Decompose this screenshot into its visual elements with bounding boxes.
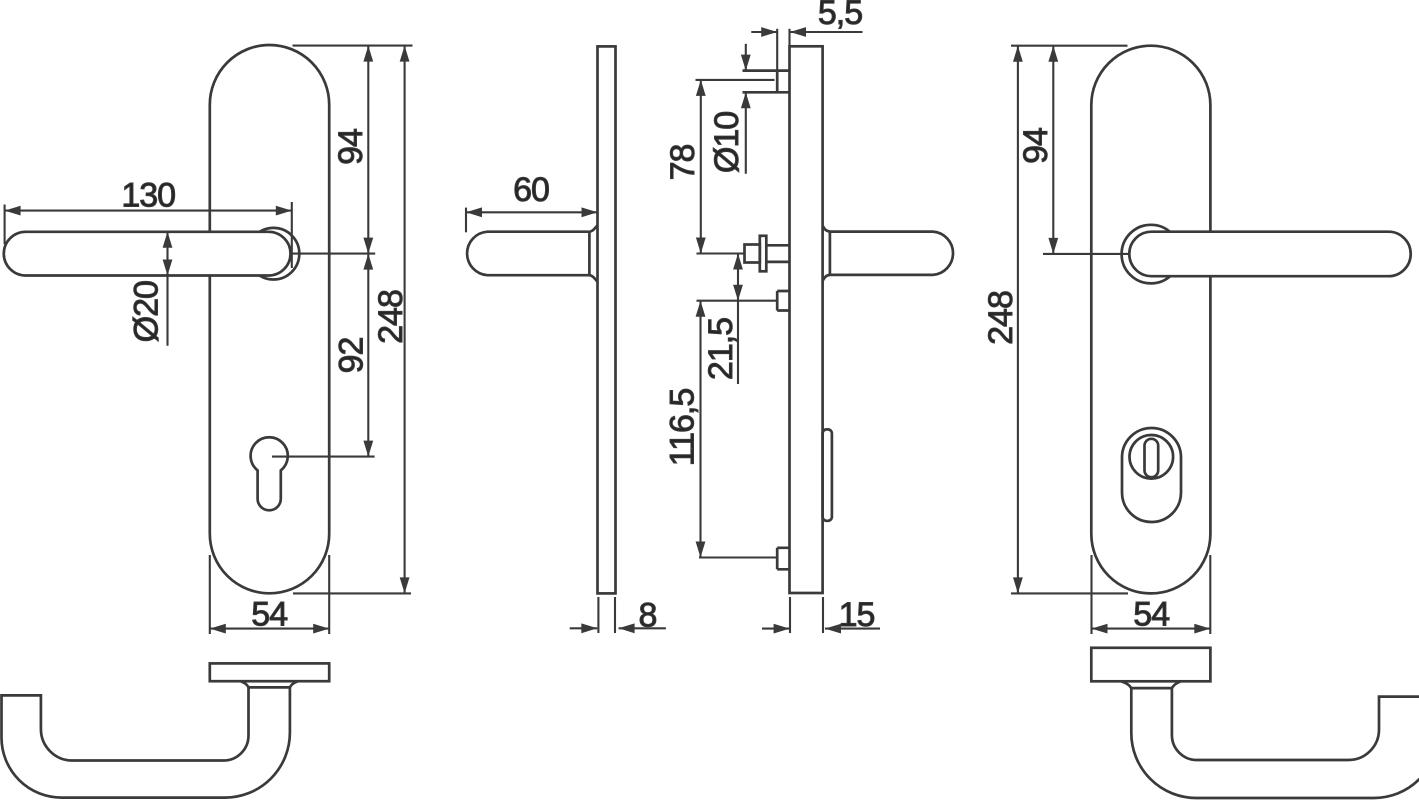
dim 54 ext right (view1) [328,555,330,634]
view4 cylinder keyway slot [1145,439,1159,477]
svg-text:Ø10: Ø10 [708,112,746,173]
dim 60 arrow left [466,207,482,217]
view2 lever flare junction [588,233,591,275]
view1 profile-cylinder keyhole [251,437,288,510]
dim 5,5 arrow left [761,27,777,37]
svg-text:5,5: 5,5 [818,0,862,32]
dim 5,5 line right [790,31,863,33]
dim 15 ext right [822,597,824,633]
dim 15 arrow left [774,624,790,634]
dim 94 line (view4) [1052,46,1054,254]
svg-text:Ø20: Ø20 [128,281,166,342]
dim 8 line left [570,627,598,629]
view3 bottom reference line [699,556,777,558]
dim 5,5 arrow right [790,27,806,37]
svg-text:54: 54 [1133,596,1169,634]
view3 spindle disc [760,236,767,271]
svg-text:116,5: 116,5 [663,389,701,467]
dim Ø20 line [166,232,168,346]
dim 78 line [700,80,702,254]
svg-text:21,5: 21,5 [702,318,740,380]
dim 5,5 line left [751,31,777,33]
svg-text:248: 248 [982,291,1020,345]
dim 54 arrow left (view4) [1092,624,1108,634]
right top-view neck junction line [1131,687,1172,690]
dim Ø10 line upper [745,44,747,71]
dim Ø20 arrow up [163,232,173,248]
svg-text:78: 78 [664,145,702,181]
svg-text:94: 94 [1017,128,1055,164]
view3 backplate section (15 mm) [790,46,823,593]
view3 bottom fixing screw boss [777,548,789,570]
view3 top fixing screw [743,71,790,93]
dim 54 line (view4) [1092,628,1211,630]
dim 5,5 extension line [776,29,778,71]
dim 54 ext left (view4) [1090,555,1092,634]
dim 248 arrow down (view4) [1013,577,1023,593]
dim 8 ext left [597,597,599,633]
view4 handle centerline [1043,253,1129,255]
view3 lever side view [823,226,953,281]
dim 8 arrow left [581,623,597,633]
left top-view lever outline [2,687,290,797]
view3 plate edge extension up [788,29,790,47]
dim 60 extension line [465,208,467,233]
dim 78 arrow down [696,238,706,254]
svg-text:248: 248 [372,290,410,344]
dim 15 line left [762,628,790,630]
view3 cylinder fixing screw boss [777,291,789,311]
left top-view neck junction line [249,686,290,689]
dim 15 ext left [789,597,791,633]
left top-view flange plate [210,663,329,681]
right top-view lever outline [1131,688,1419,798]
dim 130 extension line left [4,205,6,245]
dim 248 line (view1) [404,46,406,594]
view1 lever handle bar [4,232,291,276]
view2 backplate side view (8 mm) [598,46,616,593]
dim 94 arrow up (view4) [1048,46,1058,62]
dim 54 arrow left (view1) [210,624,226,634]
dim 8 line right [619,627,666,629]
view4 security rose circle [1122,225,1181,284]
view1 rose circle behind lever [248,228,300,280]
dim 92 line [367,254,369,457]
left top-view neck cone [241,681,298,687]
dim 54 ext right (view4) [1209,555,1211,634]
dim 94 line (view1) [367,46,369,254]
dim 54 arrow right (view4) [1194,624,1210,634]
right top-view flange plate [1091,648,1210,682]
view4 top extension line [1011,45,1128,47]
view3 lever flare junction [829,232,832,275]
svg-text:130: 130 [121,177,175,215]
dim 130 extension line right [291,202,293,268]
view3 spindle square [745,245,760,263]
dim 94 arrow down (view4) [1048,238,1058,254]
dim 248 arrow up (view4) [1013,46,1023,62]
dim 15 arrow right [825,624,841,634]
dim 116,5 line [699,301,701,558]
view3 oval escutcheon side view [823,429,832,520]
dim 116,5 arrow down [696,542,706,558]
dim Ø20 arrow down [163,260,173,276]
view3 spindle neck lines [766,245,789,262]
svg-text:60: 60 [513,171,549,209]
dim Ø10 arrow down [741,55,751,71]
dim 21,5 arrow up [733,254,743,270]
view4 bottom extension line [1011,592,1128,594]
view2 lever side view [467,225,597,281]
view3 spindle centerline [697,252,744,254]
view4 cylinder core circle [1130,435,1174,479]
view4 oval security escutcheon [1122,428,1181,522]
view1 top extension line [293,45,413,47]
dim 130 arrow left [5,206,21,216]
dim 15 line right [825,628,880,630]
dim Ø10 line lower [745,92,747,174]
dim 130 arrow right [276,206,292,216]
dim 54 ext left (view1) [209,555,211,634]
view1 keyhole centerline [272,456,375,458]
dim 78 arrow up [696,80,706,96]
svg-text:15: 15 [839,596,875,634]
dim 248 line (view4) [1017,46,1019,594]
dim 60 line [466,211,598,213]
dim 21,5 line [737,254,739,385]
dim 116,5 arrow up [696,301,706,317]
dim 78 top reference line [696,79,775,81]
svg-text:94: 94 [332,129,370,165]
view1 bottom extension line [293,592,411,594]
view1 backplate (slim, front view) [210,45,329,593]
view4 backplate (security, front view) [1091,46,1210,594]
dim 8 arrow right [619,623,635,633]
dim 54 line (view1) [210,628,329,630]
view4 lever handle bar [1129,232,1410,277]
dim 60 arrow right [582,207,598,217]
dim 94 arrow up (view1) [363,46,373,62]
dim 54 arrow right (view1) [313,624,329,634]
dim 94 arrow down (view1) [363,238,373,254]
dim 130 line [5,210,292,212]
view1 handle centerline [291,253,375,255]
svg-text:54: 54 [251,596,287,634]
dim 248 arrow down (view1) [400,577,410,593]
view3 cylinder reference line [697,300,778,302]
dim 248 arrow up (view1) [400,46,410,62]
svg-text:8: 8 [639,596,657,634]
right top-view neck cone [1122,682,1181,689]
dim 92 arrow up [363,254,373,270]
dim 21,5 arrow down [733,285,743,301]
svg-text:92: 92 [332,338,370,374]
dim 92 arrow down [363,441,373,457]
dim 8 ext right [614,597,616,633]
dim Ø10 arrow up [741,92,751,108]
